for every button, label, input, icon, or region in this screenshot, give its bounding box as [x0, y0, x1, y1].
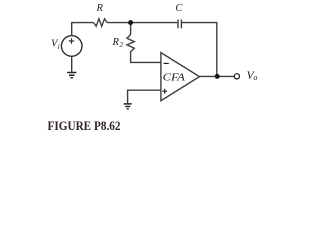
label Vi [51, 39, 60, 51]
output terminal open circle [234, 74, 239, 79]
voltage source Vi [61, 36, 82, 57]
op-amp U1 triangle (CFA) [161, 53, 200, 101]
resistor R [94, 19, 108, 27]
svg-text:C: C [175, 3, 183, 14]
node A junction dot [128, 20, 133, 25]
wire Vi top terminal up and right to R [72, 23, 94, 36]
wire Vi bottom terminal down to ground [71, 56, 73, 72]
output node junction dot [215, 74, 220, 79]
wire C right then down to output node [181, 23, 216, 75]
capacitor C [178, 20, 181, 29]
wire noninverting input left and down to ground [128, 90, 161, 103]
inverting input marker minus [164, 62, 169, 64]
svg-text:i: i [58, 42, 60, 51]
wire R2 to inverting input of op-amp [131, 52, 161, 63]
label Vo [247, 70, 258, 82]
svg-text:CFA: CFA [163, 72, 186, 83]
ground at noninverting input [124, 104, 132, 109]
svg-text:FIGURE P8.62: FIGURE P8.62 [48, 119, 121, 132]
svg-text:2: 2 [119, 40, 123, 49]
svg-text:o: o [253, 73, 257, 82]
wire op-amp output to terminal [200, 75, 235, 77]
wire node A down to R2 [130, 25, 132, 35]
label R2 [112, 37, 124, 49]
resistor R2 [127, 35, 134, 52]
svg-text:R: R [96, 3, 104, 14]
wire R to capacitor C (through node A) [107, 22, 178, 24]
noninverting input marker plus [162, 89, 167, 94]
ground below Vi [67, 73, 76, 78]
